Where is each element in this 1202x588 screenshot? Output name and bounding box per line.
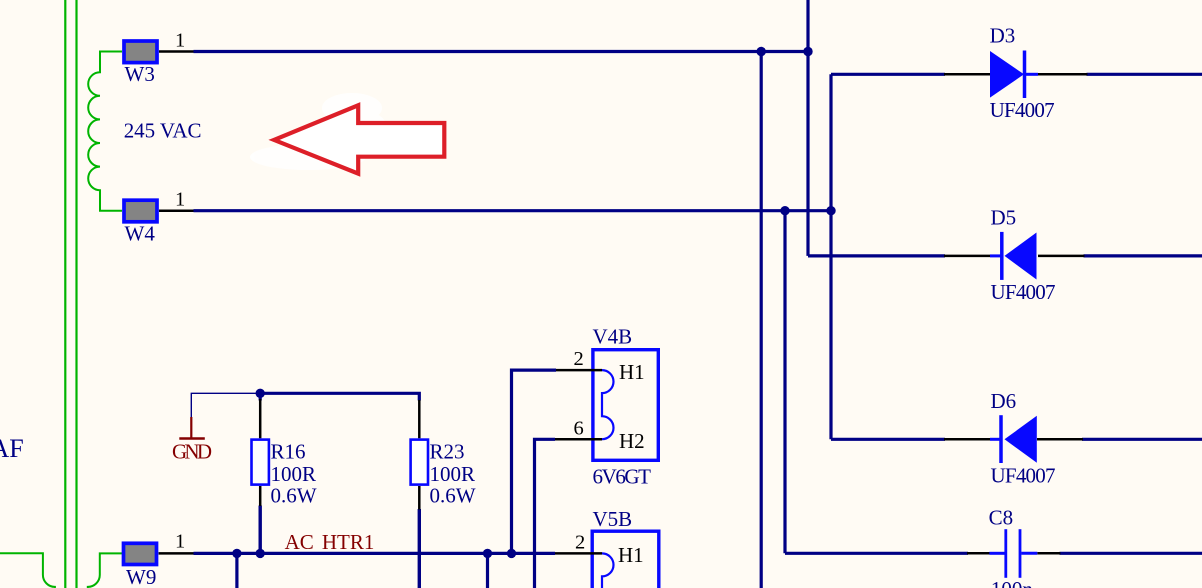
V4B pin 2 lead (556, 369, 602, 372)
svg-text:D5: D5 (991, 205, 1017, 229)
V5B heater filament (602, 553, 614, 588)
svg-text:AF: AF (0, 434, 24, 463)
wire V4B pin6 drop (535, 439, 556, 588)
wire D3 row left (831, 73, 945, 76)
wire R16 bottom to rail (259, 506, 262, 554)
svg-text:100R: 100R (271, 462, 317, 486)
wire D5 row left (808, 254, 945, 257)
svg-text:V5B: V5B (593, 507, 633, 531)
svg-text:W9: W9 (126, 565, 156, 588)
tube heater V4B (555, 325, 658, 489)
wire GND stub (thin) (191, 393, 260, 417)
junction dot AC_HTR1 x=487.5 (483, 549, 492, 558)
wire vertical bus at x=761 (760, 52, 763, 588)
wire D5 row right (1084, 254, 1202, 257)
svg-text:H2: H2 (619, 429, 645, 453)
winding lead left of W9 (green) (0, 553, 55, 588)
junction dot W3/bus808 (803, 47, 812, 56)
svg-text:UF4007: UF4007 (990, 98, 1055, 122)
terminal W3 pin 1 lead (159, 50, 194, 53)
resistor R23 (411, 400, 476, 510)
wire R16 top stub (259, 393, 262, 400)
white smudge blobs around arrow (250, 93, 389, 170)
terminal W4 pin 1 lead (159, 209, 194, 212)
diode D6 (944, 389, 1083, 488)
diode D5 (944, 205, 1085, 304)
transformer secondary winding W3-W4 (green coil) (88, 52, 122, 211)
junction dot AC_HTR1 / V4B riser (507, 549, 516, 558)
V5B pin 2 lead (555, 552, 602, 555)
junction dot W4/bus831 (826, 206, 835, 215)
junction dot AC_HTR1 / R16 (256, 549, 265, 558)
svg-text:1: 1 (175, 30, 185, 52)
V4B heater filament (602, 370, 614, 439)
GND symbol (172, 417, 212, 464)
svg-text:245 VAC: 245 VAC (124, 119, 202, 143)
junction dot W3/bus761 (757, 47, 766, 56)
winding lead right into W9 (green) (88, 553, 122, 588)
svg-text:C8: C8 (989, 506, 1014, 530)
wire R16 to R23 top rail (260, 393, 419, 400)
wire vertical bus at x=831 from D3 to D6 line (829, 74, 832, 439)
wire W4 line (navy) (194, 209, 832, 212)
tube heater V5B (555, 507, 659, 588)
net label AC_HTR1 (285, 530, 375, 554)
svg-text:2: 2 (574, 348, 584, 370)
junction dot GND rail / R16 (256, 389, 265, 398)
wire C8 row right (1060, 552, 1202, 555)
diode D3 (944, 23, 1088, 122)
svg-text:100R: 100R (430, 462, 476, 486)
svg-text:2: 2 (575, 531, 585, 553)
svg-text:AC: AC (285, 530, 314, 554)
wire AC_HTR1 rail (194, 552, 556, 555)
svg-text:HTR1: HTR1 (322, 530, 375, 554)
svg-text:6: 6 (574, 417, 584, 439)
terminal W4 (124, 200, 157, 222)
svg-text:W4: W4 (125, 221, 156, 245)
svg-text:100n: 100n (991, 577, 1034, 588)
wire D3 row right (1087, 73, 1202, 76)
wire down from dot x=237 (235, 553, 238, 588)
terminal W3 (124, 41, 157, 63)
svg-text:D3: D3 (990, 23, 1016, 47)
svg-text:0.6W: 0.6W (271, 484, 317, 508)
V4B pin 6 lead (555, 438, 602, 441)
svg-text:GND: GND (172, 440, 212, 464)
capacitor C8 (967, 506, 1060, 588)
svg-text:D6: D6 (991, 389, 1017, 413)
svg-text:0.6W: 0.6W (430, 484, 476, 508)
junction dot W4/bus785 (780, 206, 789, 215)
junction dot AC_HTR1 x=237 (232, 549, 241, 558)
wire C8 row left (785, 552, 968, 555)
svg-text:UF4007: UF4007 (991, 464, 1056, 488)
svg-text:W3: W3 (125, 62, 155, 86)
svg-text:R16: R16 (271, 440, 306, 464)
resistor R16 (252, 399, 317, 508)
wire vertical bus at x=808 from top to D5 line (806, 0, 809, 256)
wire V4B pin2 riser from AC_HTR1 (512, 370, 557, 553)
wire D6 row left (831, 438, 945, 441)
svg-text:R23: R23 (430, 440, 465, 464)
red arrow pointing left (274, 105, 444, 173)
svg-text:1: 1 (175, 531, 185, 553)
transformer core line right (75, 0, 77, 588)
transformer core line left (64, 0, 66, 588)
svg-text:6V6GT: 6V6GT (593, 465, 652, 489)
wire W3 line (navy) (194, 50, 809, 53)
wire R23 bottom crossing down (418, 509, 421, 588)
wire down from dot x=487.5 (486, 553, 489, 588)
svg-text:V4B: V4B (593, 325, 633, 349)
svg-text:1: 1 (175, 189, 185, 211)
svg-text:H1: H1 (618, 543, 644, 567)
wire D6 row right (1082, 438, 1202, 441)
svg-text:H1: H1 (619, 360, 645, 384)
terminal W9 (124, 543, 157, 564)
wire vertical bus at x=785 down to C8 line (783, 211, 786, 554)
terminal W9 pin 1 lead (159, 552, 194, 555)
svg-text:UF4007: UF4007 (991, 280, 1056, 304)
